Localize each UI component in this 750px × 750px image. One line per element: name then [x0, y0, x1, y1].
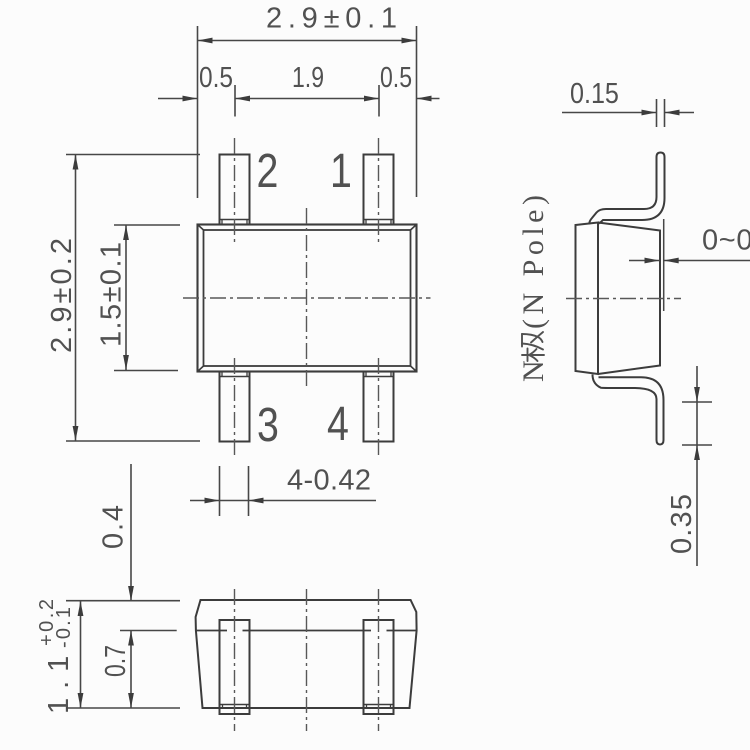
- pin number 4: [327, 397, 349, 451]
- svg-text:2.9±0.2: 2.9±0.2: [46, 235, 78, 353]
- bottom view body centerline: [306, 589, 308, 731]
- dimension 1.1 +0.2 -0.1 total height: [36, 597, 83, 714]
- side view body main profile: [598, 223, 660, 375]
- body corner chamfer lines: [198, 225, 417, 372]
- svg-text:N: N: [517, 360, 550, 382]
- svg-text:0~0.1: 0~0.1: [702, 225, 750, 257]
- body horizontal centerline: [183, 297, 431, 299]
- dimension 2.9±0.2 overall height: [46, 155, 200, 442]
- dimension 0.4: [98, 464, 134, 601]
- pin 3 centerline: [234, 358, 236, 457]
- svg-text:4: 4: [327, 397, 349, 451]
- pin 4 centerline: [378, 358, 380, 457]
- svg-text:2: 2: [257, 144, 279, 198]
- pin number 2: [257, 144, 279, 198]
- N pole polarity label N极(N Pole): [517, 191, 550, 382]
- side view horizontal centerline: [566, 298, 681, 300]
- package body top view outer outline: [198, 225, 417, 372]
- dimension 2.9±0.1 overall width: [198, 3, 417, 199]
- svg-text:(N Pole): (N Pole): [517, 191, 550, 329]
- svg-text:4-0.42: 4-0.42: [287, 465, 371, 497]
- bottom view right pad centerline: [378, 589, 380, 731]
- bottom view left pad centerline: [234, 589, 236, 731]
- pin 3 (bottom-left lead): [220, 372, 250, 442]
- svg-text:0.7: 0.7: [98, 645, 131, 677]
- dimension 0.7: [98, 631, 133, 709]
- svg-text:2.9±0.1: 2.9±0.1: [266, 3, 403, 35]
- svg-text:-0.1: -0.1: [53, 605, 75, 648]
- pin 4 (bottom-right lead): [364, 372, 394, 442]
- side view body left face: [576, 223, 599, 375]
- pin 2 centerline: [234, 138, 236, 245]
- dimension 0.35 stand-off height: [666, 366, 712, 566]
- side view top gull-wing lead: [589, 153, 664, 225]
- svg-text:3: 3: [257, 398, 279, 452]
- dimension 4-0.42 lead width: [190, 465, 376, 517]
- svg-text:1: 1: [330, 144, 352, 198]
- svg-text:0.15: 0.15: [570, 76, 619, 109]
- svg-text:1.9: 1.9: [292, 60, 324, 93]
- package body top view inner outline: [204, 230, 411, 366]
- pin 2 (top-left lead): [220, 155, 250, 225]
- dimension 0~0.1 lead standout: [629, 225, 750, 264]
- dimension 1.5±0.1 body height: [96, 225, 181, 371]
- svg-text:1.1: 1.1: [43, 647, 75, 714]
- svg-text:0.35: 0.35: [666, 493, 698, 554]
- pin number 1: [330, 144, 352, 198]
- lead edge extension line: [663, 219, 665, 311]
- svg-text:0.5: 0.5: [199, 61, 233, 93]
- dimension 0.5 / 1.9 / 0.5 pin spacing: [158, 60, 440, 116]
- bottom view chamfer boundary line: [196, 630, 417, 632]
- pin 1 centerline: [378, 138, 380, 245]
- extension lines bottom view: [66, 601, 180, 708]
- pin number 3: [257, 398, 279, 452]
- svg-text:0.5: 0.5: [380, 60, 412, 93]
- side view bottom gull-wing lead: [593, 375, 664, 445]
- body vertical centerline: [306, 208, 308, 390]
- bottom view body outline: [196, 600, 417, 708]
- bottom view right pad: [364, 620, 394, 714]
- bottom view left pad: [220, 620, 250, 714]
- dimension 0.15 lead thickness: [562, 76, 694, 127]
- pin 1 (top-right lead): [364, 155, 394, 225]
- svg-text:0.4: 0.4: [98, 503, 130, 549]
- svg-text:1.5±0.1: 1.5±0.1: [96, 241, 128, 347]
